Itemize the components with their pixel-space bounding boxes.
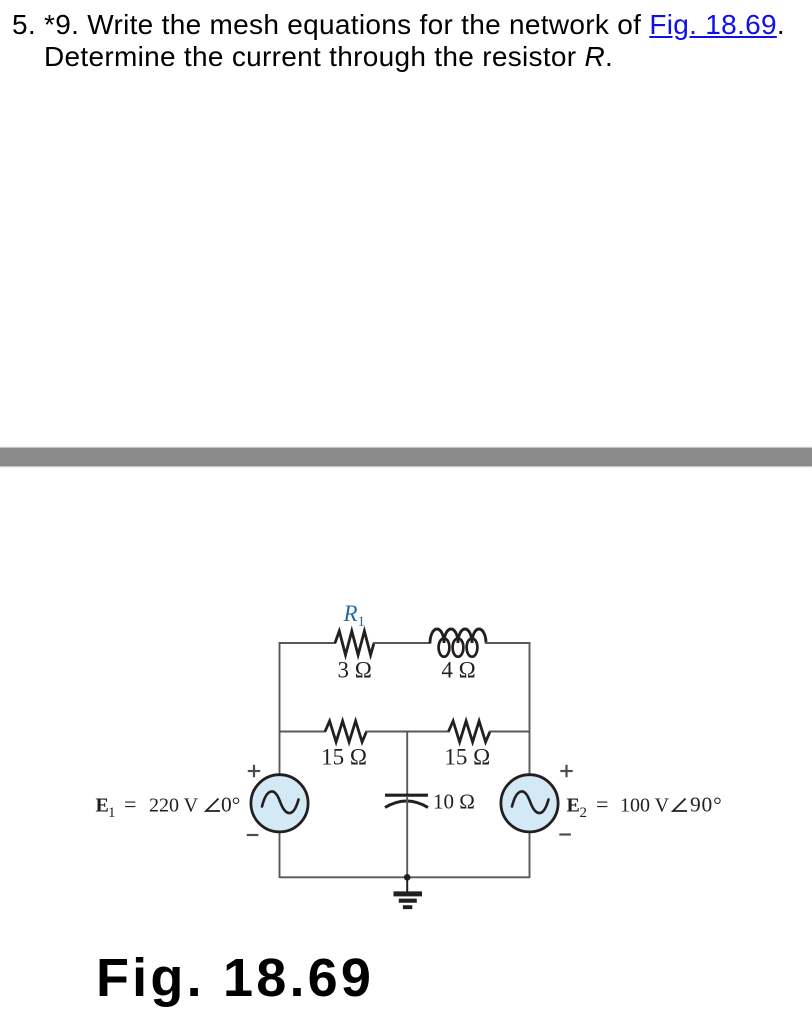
- capacitor C1 top plate: [385, 794, 428, 797]
- wire left vertical lower: [279, 831, 281, 878]
- source E2 sine wave: [512, 791, 549, 813]
- wire middle-left segment: [280, 731, 327, 733]
- svg-text:3 Ω: 3 Ω: [338, 658, 372, 683]
- svg-text:4 Ω: 4 Ω: [441, 658, 475, 683]
- label 15 ohm left: [321, 745, 367, 770]
- svg-text:1: 1: [108, 805, 116, 821]
- inductor L1 loops: [439, 638, 478, 656]
- wire top-left segment: [280, 642, 337, 644]
- angle symbol E2: [673, 799, 687, 812]
- label 3 ohm: [338, 658, 372, 683]
- ground bar 3: [403, 905, 412, 909]
- capacitor C1 curved bottom plate: [385, 801, 428, 808]
- svg-text:E: E: [96, 795, 109, 817]
- svg-text:R: R: [343, 601, 358, 626]
- svg-text:100 V: 100 V: [620, 795, 670, 817]
- wire left vertical upper: [279, 642, 281, 775]
- wire right vertical upper: [529, 642, 531, 775]
- inductor L1 coil humps: [430, 629, 486, 643]
- wire center vertical upper: [406, 732, 408, 795]
- wire between R1 and inductor: [373, 642, 431, 644]
- problem statement text: [44, 9, 785, 73]
- angle symbol E1: [206, 799, 220, 812]
- wire center vertical lower: [406, 797, 408, 878]
- label 4 ohm: [441, 658, 475, 683]
- source E1 sine wave: [262, 791, 299, 813]
- source E1 minus sign: [247, 834, 259, 836]
- source E2 plus sign: [560, 765, 572, 777]
- ground stub wire: [406, 877, 408, 891]
- source E2 circle: [501, 775, 558, 832]
- ground bar 2: [399, 899, 417, 903]
- gray divider bar: [0, 448, 812, 466]
- svg-text:15 Ω: 15 Ω: [321, 745, 367, 770]
- svg-text:220 V: 220 V: [149, 795, 199, 817]
- label E1 value: [96, 792, 241, 822]
- svg-text:10 Ω: 10 Ω: [433, 790, 475, 814]
- svg-text:E: E: [567, 795, 580, 817]
- resistor R3 15-ohm right zigzag: [449, 721, 491, 742]
- node junction dot: [404, 874, 411, 881]
- resistor R2 15-ohm left zigzag: [325, 721, 367, 742]
- wire right vertical lower: [529, 831, 531, 878]
- label 10 ohm: [433, 790, 475, 814]
- source E1 plus sign: [248, 765, 260, 777]
- svg-text:90°: 90°: [690, 793, 723, 817]
- svg-text:2: 2: [580, 805, 588, 821]
- wire bottom segment: [280, 876, 530, 878]
- svg-text:=: =: [596, 792, 608, 817]
- label E2 value: [567, 792, 723, 822]
- svg-text:=: =: [124, 792, 136, 817]
- svg-text:1: 1: [358, 614, 366, 630]
- svg-text:15 Ω: 15 Ω: [444, 745, 490, 770]
- wire middle-center segment: [366, 731, 450, 733]
- source E1 circle: [251, 775, 308, 832]
- figure caption: [96, 947, 374, 1009]
- ground bar 1: [394, 891, 423, 896]
- wire middle-right segment: [489, 731, 531, 733]
- wire top-right segment: [485, 642, 531, 644]
- label R1: [343, 601, 366, 630]
- source E2 minus sign: [559, 833, 571, 835]
- resistor R1 zigzag: [335, 631, 374, 655]
- label 15 ohm right: [444, 745, 490, 770]
- svg-text:0°: 0°: [221, 793, 240, 817]
